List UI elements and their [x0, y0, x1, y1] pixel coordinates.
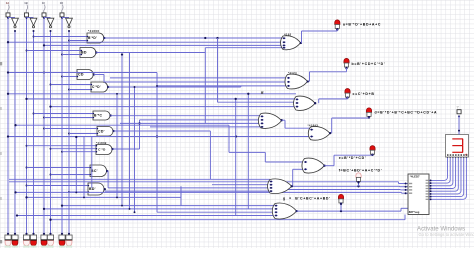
svg-text:C'*D: C'*D [97, 148, 106, 152]
svg-text:B'*D': B'*D' [88, 36, 97, 40]
svg-text:d=B'*D'+B'*C+BC'*D+CD'+A: d=B'*D'+B'*C+BC'*D+CD'+A [375, 110, 438, 114]
svg-text:f=BC'+BD'+A+C'*D': f=BC'+BD'+A+C'*D' [339, 168, 383, 172]
svg-text:g = B'C+BC'+A+BD': g = B'C+BC'+A+BD' [283, 196, 331, 200]
svg-text:B': B' [261, 91, 264, 95]
svg-text:1B: 1B [24, 1, 27, 5]
svg-text:CD': CD' [98, 129, 105, 133]
svg-text:C'*D': C'*D' [92, 85, 101, 89]
svg-text:1C: 1C [42, 1, 45, 5]
svg-text:1D: 1D [60, 1, 63, 5]
svg-text:b=B'+CD+C'*D': b=B'+CD+C'*D' [352, 62, 386, 66]
svg-text:a=B'*D'+BD+A+C: a=B'*D'+BD+A+C [343, 22, 381, 26]
svg-text:c=C'+D+B: c=C'+D+B [353, 92, 375, 96]
svg-text:1A: 1A [6, 1, 9, 5]
svg-text:e=B'*D'+CD': e=B'*D'+CD' [339, 156, 367, 160]
svg-text:*4LED7: *4LED7 [410, 175, 420, 179]
svg-text:887*seg: 887*seg [409, 210, 420, 214]
svg-text:BD': BD' [89, 187, 96, 191]
svg-text:CD: CD [78, 73, 84, 77]
svg-text:Go to Settings to activate Win: Go to Settings to activate Windows. [419, 232, 474, 237]
svg-text:B'*C: B'*C [94, 114, 102, 118]
svg-text:*41606: *41606 [88, 29, 99, 33]
